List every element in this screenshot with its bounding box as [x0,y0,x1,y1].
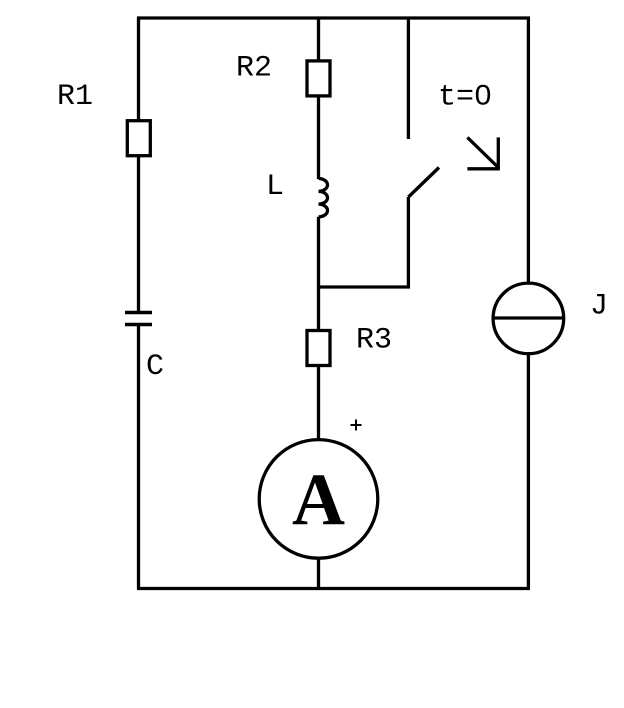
wire bottom [137,587,530,590]
wire middle ammeter to bottom [317,558,320,589]
label plus [351,420,362,431]
wire left upper [137,18,140,122]
svg-text:C: C [146,350,164,384]
current source J circle [493,283,564,354]
resistor R1 [127,121,150,156]
capacitor C [125,313,152,325]
inductor L [319,179,328,217]
svg-text:L: L [266,170,284,204]
wire left middle [137,156,140,312]
arrow head vertical [497,137,500,169]
wire middle node to R3 [317,287,320,331]
wire top [137,16,530,19]
svg-text:R3: R3 [356,324,392,358]
wire left lower [137,325,140,589]
ammeter U1 circle [259,440,378,559]
resistor R3 [307,331,330,366]
svg-text:R2: R2 [236,52,272,86]
wire middle top [317,18,320,62]
resistor R2 [307,61,330,96]
current source J bar [494,316,563,319]
wire middle R2 to L [317,96,320,179]
wire middle L to node [317,217,320,289]
wire right lower [527,353,530,589]
wire middle R3 to ammeter [317,366,320,440]
svg-text:A: A [292,459,345,541]
wire switch top terminal [407,18,410,139]
node junction wire to switch [317,285,410,288]
arrow head horizontal [467,167,499,170]
switch blade [408,168,439,198]
wire switch bottom terminal [407,197,410,289]
svg-text:R1: R1 [57,80,93,114]
svg-text:J: J [590,290,608,324]
arrow diagonal [467,137,498,167]
wire right upper [527,18,530,284]
